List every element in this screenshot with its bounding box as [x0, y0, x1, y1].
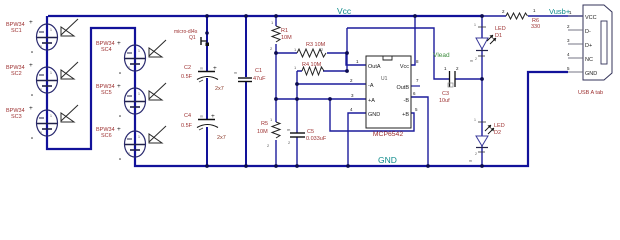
svg-text:SC6: SC6: [101, 133, 112, 139]
light arrows for SC1: [61, 19, 78, 36]
svg-text:SC3: SC3: [11, 114, 22, 120]
svg-text:SC2: SC2: [11, 71, 22, 77]
svg-text:2: 2: [128, 66, 130, 70]
svg-text:m: m: [200, 115, 203, 119]
svg-text:Vlead: Vlead: [433, 52, 450, 59]
resistor R5: [257, 117, 280, 148]
svg-text:2x7: 2x7: [215, 86, 224, 92]
svg-text:2: 2: [40, 88, 42, 92]
svg-text:D2: D2: [494, 130, 501, 136]
capacitor C1: [234, 68, 266, 82]
junction dots bottom rail: [205, 164, 484, 168]
svg-text:USB A tab: USB A tab: [578, 90, 603, 96]
pin stubs USB: [568, 16, 583, 72]
svg-text:2: 2: [40, 45, 42, 49]
svg-text:VCC: VCC: [585, 15, 597, 21]
capacitor C2: [181, 65, 218, 82]
svg-text:OutB: OutB: [396, 85, 409, 91]
svg-text:2: 2: [128, 152, 130, 156]
svg-text:m: m: [200, 67, 203, 71]
svg-text:330: 330: [531, 24, 540, 30]
photodiode SC6: [96, 126, 146, 160]
svg-text:LED: LED: [495, 26, 506, 32]
svg-text:1: 1: [138, 135, 140, 139]
svg-text:R3 10M: R3 10M: [306, 42, 326, 48]
svg-text:U1: U1: [381, 76, 388, 82]
svg-text:2: 2: [475, 57, 477, 61]
light arrows for SC5: [149, 83, 166, 100]
svg-text:1: 1: [50, 71, 52, 75]
resistor R1: [270, 20, 292, 51]
svg-text:2: 2: [475, 152, 477, 156]
LED D1: [470, 23, 506, 63]
LED D2: [469, 118, 505, 163]
svg-text:1: 1: [50, 28, 52, 32]
svg-text:1: 1: [138, 92, 140, 96]
junction dots top rail: [205, 14, 484, 18]
pin numbers USB: [567, 10, 572, 71]
svg-text:SC4: SC4: [101, 47, 112, 53]
svg-text:+: +: [29, 19, 33, 26]
svg-text:R4 10M: R4 10M: [302, 62, 322, 68]
wire C3 right to LED node: [455, 78, 482, 80]
op-amp U1 MCP6542: [350, 56, 419, 138]
svg-text:m: m: [470, 59, 473, 63]
junction dots middle: [274, 51, 484, 101]
wire R4 row y=71: [297, 70, 347, 72]
resistor R4: [294, 62, 324, 75]
wire node y=53 (R1 bottom to R3): [276, 52, 347, 54]
svg-text:-A: -A: [368, 83, 374, 89]
wire pin7 stub: [411, 85, 420, 87]
svg-text:Vusb+: Vusb+: [549, 7, 571, 16]
svg-text:R1: R1: [281, 28, 288, 34]
svg-text:1: 1: [50, 114, 52, 118]
wire Vcc pin8 riser: [411, 16, 415, 65]
svg-text:R5: R5: [261, 121, 268, 127]
photodiode SC1: [6, 19, 58, 53]
svg-text:D+: D+: [585, 43, 592, 49]
svg-text:+: +: [29, 105, 33, 112]
svg-text:1: 1: [138, 49, 140, 53]
wire +A row y=99: [276, 98, 366, 100]
photodiode SC3: [6, 105, 58, 139]
wire x=297 vertical (R4 left / -A / C5): [296, 71, 298, 166]
svg-text:0.033uF: 0.033uF: [306, 136, 327, 142]
svg-text:+: +: [117, 83, 121, 90]
transistor Q1: [174, 29, 209, 46]
wire GND pin4 x=348: [348, 113, 366, 166]
svg-text:GND: GND: [585, 71, 597, 77]
svg-text:+: +: [117, 126, 121, 133]
svg-text:10M: 10M: [257, 129, 268, 135]
wire -A row y=84: [297, 83, 366, 85]
svg-text:C2: C2: [184, 65, 191, 71]
svg-text:0.5F: 0.5F: [181, 74, 193, 80]
light arrows for SC2: [61, 62, 78, 79]
photodiode SC2: [6, 62, 58, 96]
svg-text:47uF: 47uF: [253, 76, 266, 82]
wire OutA pin1 to node: [346, 53, 366, 65]
svg-text:C4: C4: [184, 113, 191, 119]
wire R6 row y=16: [483, 15, 583, 17]
svg-text:1: 1: [474, 118, 476, 122]
svg-text:SC5: SC5: [101, 90, 112, 96]
svg-text:2: 2: [128, 109, 130, 113]
wire pin6 to GND rail: [411, 97, 428, 166]
svg-text:2x7: 2x7: [217, 135, 226, 141]
wire C1 branch x=246: [245, 16, 247, 166]
wire solar string loop: col1 down, bottom-left, col2 top, col2 down, GND bottom rail, right riser to USB GND: [47, 16, 568, 166]
svg-text:m: m: [234, 71, 237, 75]
connector USB A tab: [578, 5, 612, 96]
svg-text:+: +: [29, 62, 33, 69]
svg-text:+A: +A: [368, 98, 375, 104]
resistor R3: [294, 42, 326, 57]
svg-text:C5: C5: [307, 129, 314, 135]
svg-text:D-: D-: [585, 29, 591, 35]
capacitor C4: [181, 113, 218, 130]
svg-text:10uf: 10uf: [439, 98, 450, 104]
wire LED string x=482: [481, 16, 483, 166]
svg-text:1: 1: [474, 23, 476, 27]
svg-text:2: 2: [40, 131, 42, 135]
svg-text:0.5F: 0.5F: [181, 123, 193, 129]
wire +B link x330/y131/x414: [330, 99, 414, 131]
wire feedback top y=28 to Vlead: [347, 28, 449, 79]
svg-text:m: m: [469, 159, 472, 163]
wire node x=347 vertical: [346, 28, 348, 71]
svg-text:GND: GND: [368, 112, 380, 118]
svg-text:+: +: [117, 40, 121, 47]
resistor R6: [502, 8, 540, 30]
svg-text:+B: +B: [402, 112, 409, 118]
svg-text:OutA: OutA: [368, 64, 381, 70]
wire R1/R5 divider branch x=276: [275, 16, 277, 166]
photodiode SC5: [96, 83, 146, 117]
light arrows for SC4: [149, 40, 166, 57]
svg-text:Vcc: Vcc: [337, 6, 352, 16]
capacitor C3: [439, 66, 459, 104]
wire trunk x=207 (Q1 / C2 / C4 branch): [206, 16, 208, 166]
svg-text:-B: -B: [404, 98, 410, 104]
svg-text:SC1: SC1: [11, 28, 22, 34]
svg-text:LED: LED: [494, 123, 505, 129]
wire Vcc top rail: [48, 15, 483, 17]
light arrows for SC6: [149, 126, 166, 143]
svg-text:GND: GND: [378, 155, 397, 165]
photodiode SC4: [96, 40, 146, 74]
svg-text:C1: C1: [255, 68, 262, 74]
svg-text:Vcc: Vcc: [400, 64, 409, 70]
svg-text:Q1: Q1: [189, 35, 196, 41]
svg-text:10M: 10M: [281, 35, 292, 41]
svg-text:NC: NC: [585, 57, 593, 63]
svg-text:C3: C3: [442, 91, 449, 97]
light arrows for SC3: [61, 105, 78, 122]
svg-text:MCP6542: MCP6542: [373, 131, 403, 138]
capacitor C5: [287, 127, 327, 145]
